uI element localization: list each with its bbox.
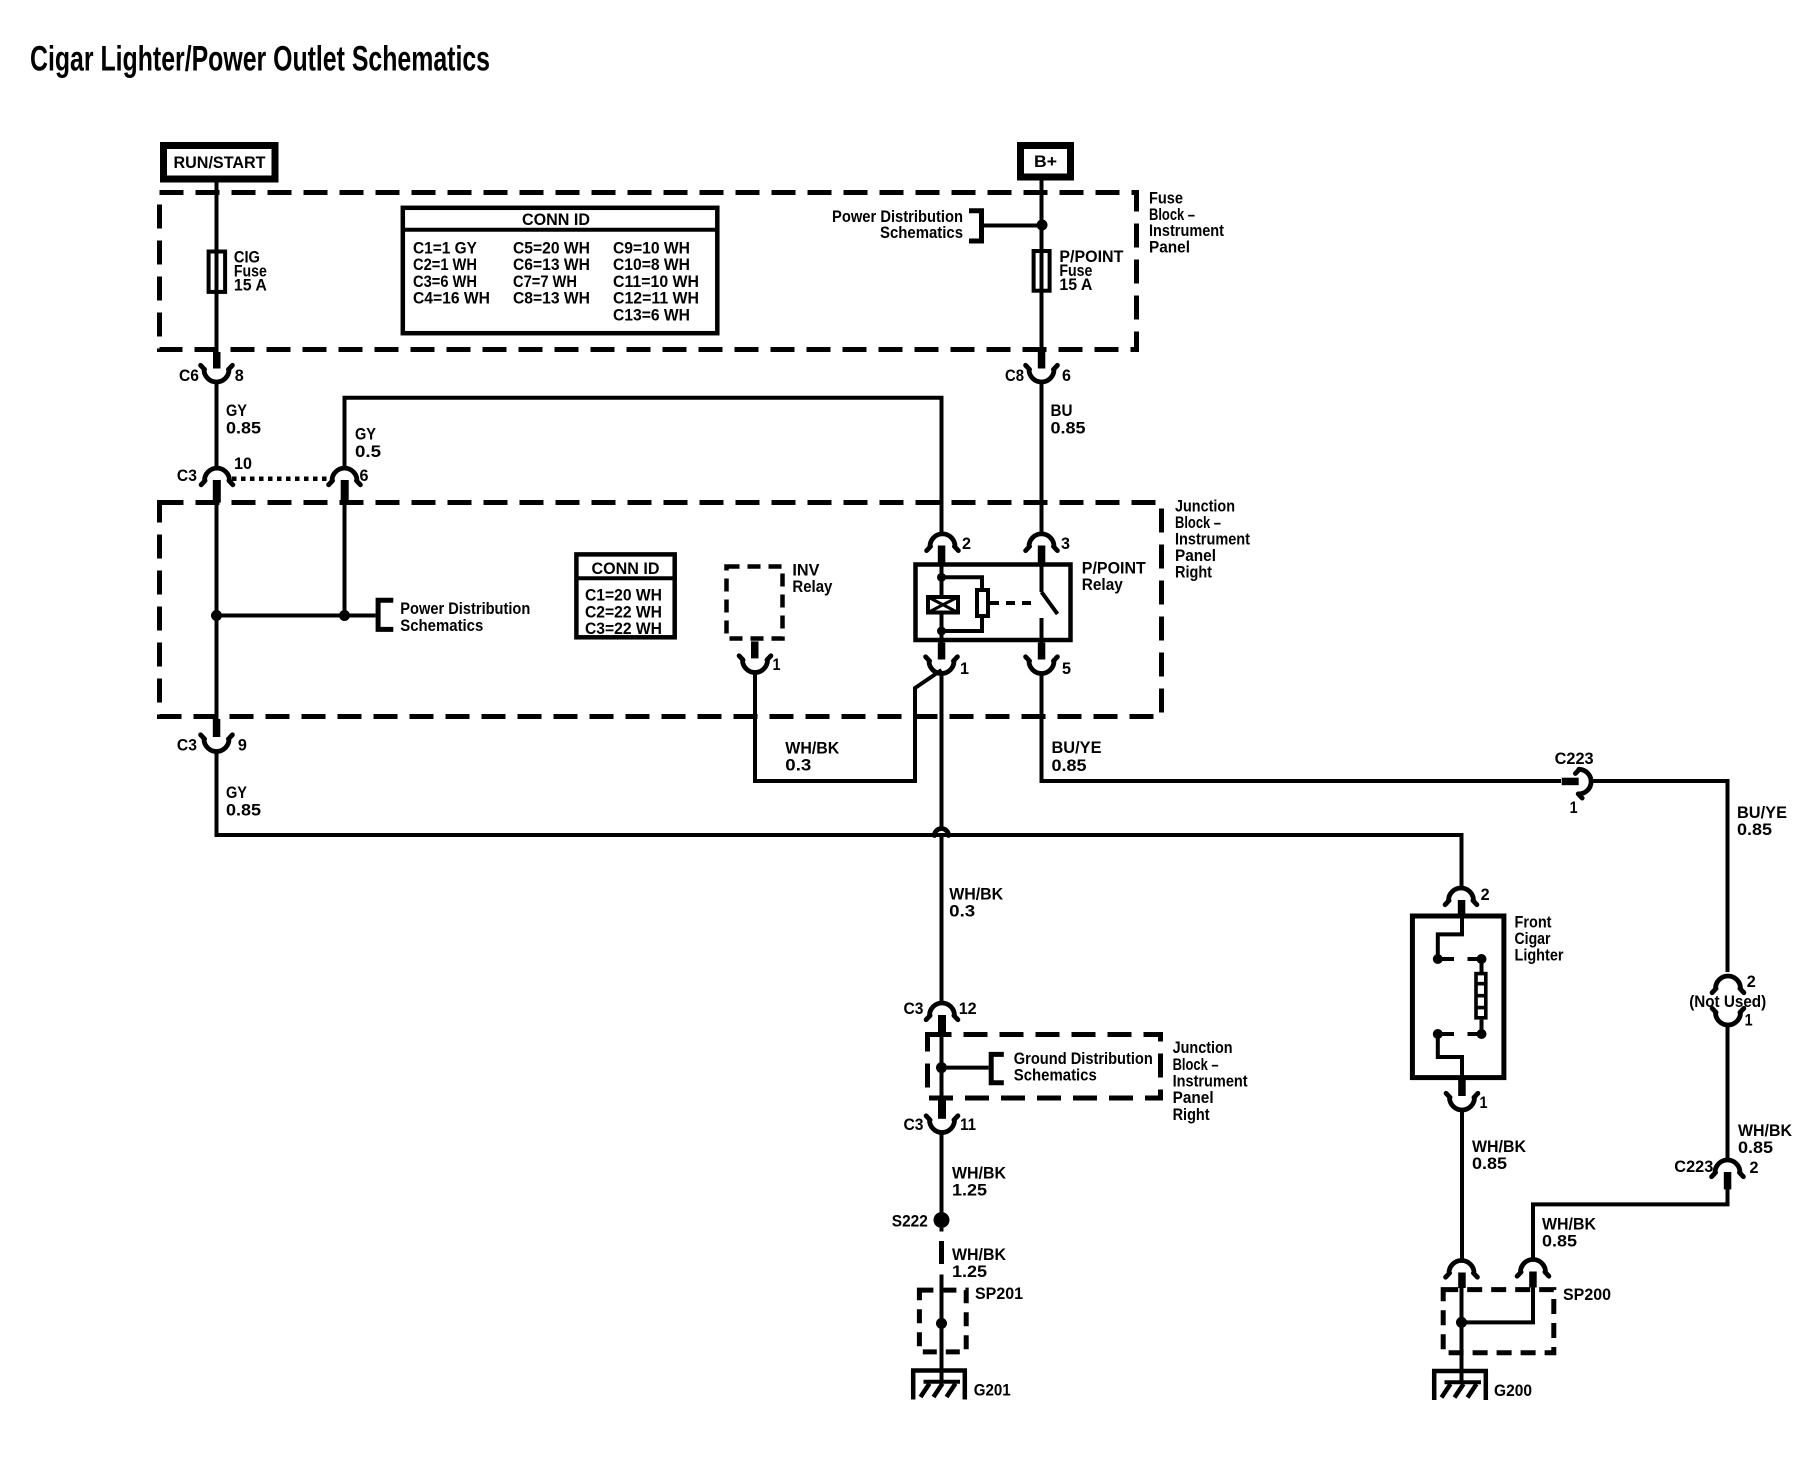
svg-text:0.85: 0.85 [1542, 1232, 1577, 1251]
junction block dashed box [160, 503, 1162, 717]
svg-text:Right: Right [1175, 563, 1212, 582]
wire C223/1 to right corner and down [1591, 781, 1728, 972]
svg-text:C3: C3 [177, 736, 197, 755]
svg-text:3: 3 [1061, 534, 1070, 553]
power distribution schematics reference (junction block) [378, 599, 530, 635]
ground distribution schematics reference [991, 1049, 1153, 1085]
svg-text:G200: G200 [1494, 1381, 1532, 1400]
cigar lighter internal: pin2 lead to top contact [1438, 914, 1462, 955]
svg-text:6: 6 [1062, 366, 1071, 385]
element lead top [1480, 959, 1484, 972]
node coil top [937, 573, 946, 582]
node junction bus left [211, 610, 222, 621]
wire label GY 0.85 (below C3/9) [226, 783, 261, 820]
junction block 2 label [1173, 1038, 1248, 1124]
svg-text:1: 1 [1745, 1011, 1753, 1030]
front cigar lighter box [1412, 916, 1504, 1078]
fuse P/POINT 15A [1034, 247, 1124, 294]
svg-text:Schematics: Schematics [400, 616, 483, 635]
wire through junction block 2 [940, 1030, 944, 1100]
fuse CIG 15A [209, 248, 267, 295]
power distribution schematics reference (fuse block) [832, 207, 982, 242]
relay core bar [977, 590, 988, 616]
svg-text:GY: GY [226, 783, 248, 802]
wire node to ground distribution bracket [942, 1066, 989, 1070]
node ground bus [936, 1062, 947, 1073]
svg-text:2: 2 [1747, 972, 1756, 991]
svg-text:0.5: 0.5 [355, 442, 381, 461]
svg-text:S222: S222 [892, 1212, 928, 1231]
svg-text:9: 9 [238, 736, 247, 755]
relay switch fixed contact (pin 3 side) [1040, 563, 1044, 593]
svg-text:15 A: 15 A [1059, 275, 1092, 294]
wire label WH/BK 0.85 (cigar) [1472, 1137, 1527, 1173]
relay coil wire pin2 to pin1 [940, 563, 944, 643]
svg-text:Panel: Panel [1149, 238, 1190, 257]
svg-text:CONN ID: CONN ID [522, 210, 590, 229]
svg-text:1: 1 [1480, 1093, 1488, 1112]
connector C223 pin 2 [1674, 1157, 1758, 1189]
svg-text:0.3: 0.3 [949, 902, 975, 921]
connector relay pin 5 [1026, 643, 1071, 679]
wire label BU/YE 0.85 (right) [1737, 803, 1787, 839]
svg-text:C4=16 WH: C4=16 WH [413, 289, 490, 308]
conn id table 1 [402, 208, 717, 333]
dotted connector tie line [232, 477, 332, 482]
svg-text:Right: Right [1173, 1105, 1210, 1124]
svg-text:C3: C3 [904, 999, 924, 1018]
wire RUN/START to C6 [215, 183, 219, 353]
svg-text:0.85: 0.85 [226, 419, 261, 438]
svg-text:5: 5 [1062, 659, 1071, 678]
power source box B+ [1021, 146, 1071, 178]
contact dot top-left [1433, 954, 1443, 964]
wire C3/10 down through junction block to C3/9 [215, 502, 219, 719]
node on B+ feed [1037, 220, 1048, 231]
P/POINT relay label [1082, 559, 1147, 595]
fuse block dashed box [160, 193, 1137, 350]
svg-text:BU: BU [1051, 401, 1073, 420]
junction block label [1175, 497, 1250, 582]
connector C8 pin 6 [1005, 352, 1071, 385]
svg-text:C8: C8 [1005, 366, 1024, 385]
svg-text:8: 8 [235, 366, 244, 385]
relay actuator dashed link [990, 601, 1038, 605]
heating element [1476, 974, 1486, 1018]
relay coil symbol (box with X) [928, 597, 958, 613]
svg-text:RUN/START: RUN/START [174, 153, 267, 172]
wire crossover hop [935, 829, 949, 836]
svg-text:C223: C223 [1674, 1157, 1713, 1176]
wire SP200 right to node [1462, 1288, 1534, 1323]
connector relay pin 2 [927, 534, 971, 563]
svg-text:0.85: 0.85 [1052, 756, 1087, 775]
wire C8 to relay pin 3 [1040, 381, 1044, 535]
contact dot bottom-left [1433, 1029, 1443, 1039]
wire relay pin5 down (BU/YE) [1042, 674, 1562, 782]
svg-text:1: 1 [960, 659, 969, 678]
svg-text:0.3: 0.3 [785, 756, 811, 775]
INV relay label [792, 561, 832, 597]
element lead bottom [1480, 1020, 1484, 1034]
svg-text:0.85: 0.85 [1737, 820, 1772, 839]
front cigar lighter label [1515, 913, 1564, 965]
svg-text:C8=13 WH: C8=13 WH [513, 289, 590, 308]
connector C6 pin 8 [179, 352, 244, 385]
connector (Not Used) pins 2/1 [1689, 972, 1766, 1030]
svg-text:6: 6 [360, 466, 369, 485]
svg-text:0.85: 0.85 [1738, 1138, 1773, 1157]
wire S222 stub [940, 1228, 944, 1232]
ground G201 [911, 1371, 1011, 1400]
wire label WH/BK 0.85 (middle) [1542, 1215, 1597, 1251]
relay INV dashed box [727, 567, 783, 639]
contact dot bottom-right [1477, 1029, 1487, 1039]
svg-text:BU/YE: BU/YE [1052, 738, 1102, 757]
svg-text:11: 11 [960, 1115, 976, 1134]
top-right contact stub [1468, 957, 1482, 961]
svg-text:B+: B+ [1034, 152, 1057, 171]
connector C3 pin 9 [177, 719, 247, 755]
relay switch lower contact (pin 5 side) [1040, 618, 1044, 643]
svg-text:12: 12 [959, 999, 977, 1018]
wire label BU 0.85 [1051, 401, 1086, 438]
wire C3/6 up and over to relay pin 2 [345, 398, 942, 535]
wire dashed segment to SP201 [939, 1241, 944, 1264]
wire into SP201 [940, 1275, 944, 1384]
wire not-used to C223/2 [1726, 1025, 1730, 1161]
fuse block label [1149, 189, 1224, 257]
svg-text:0.85: 0.85 [226, 801, 261, 820]
svg-text:Relay: Relay [792, 577, 832, 596]
connector C3 pin 12 [904, 999, 977, 1034]
wire relay pin1 branch to INV pin1 (WH/BK 0.3) [755, 670, 942, 781]
svg-text:GY: GY [355, 425, 377, 444]
svg-text:1.25: 1.25 [952, 1181, 987, 1200]
wire bracket to B+ node [984, 224, 1042, 228]
svg-text:SP201: SP201 [975, 1284, 1023, 1303]
svg-text:0.85: 0.85 [1051, 419, 1086, 438]
svg-text:Cigar Lighter/Power Outlet Sch: Cigar Lighter/Power Outlet Schematics [30, 40, 490, 79]
wire C3/11 to S222 [940, 1131, 944, 1213]
relay switch blade [1042, 592, 1058, 614]
relay coil loop [942, 577, 983, 631]
svg-text:0.85: 0.85 [1472, 1154, 1507, 1173]
node junction bus right [339, 610, 350, 621]
top-left contact stub [1438, 957, 1454, 961]
connector INV relay pin 1 [739, 641, 780, 674]
wire label WH/BK 0.3 (below hop) [949, 885, 1004, 921]
svg-text:C6: C6 [179, 366, 199, 385]
svg-text:SP200: SP200 [1563, 1285, 1611, 1304]
splice pack SP200 dashed box [1443, 1285, 1611, 1353]
connector front cigar lighter pin 1 [1446, 1080, 1487, 1112]
wire SP200 left through to ground [1460, 1288, 1464, 1383]
node SP200 [1456, 1317, 1467, 1328]
node SP201 [936, 1318, 947, 1329]
bottom-right contact stub [1468, 1032, 1482, 1036]
wire cigar pin 1 down to SP200 left pin [1460, 1110, 1464, 1261]
connector relay pin 3 [1026, 534, 1070, 563]
svg-text:15 A: 15 A [234, 276, 267, 295]
svg-text:1.25: 1.25 [952, 1262, 987, 1281]
svg-text:C13=6 WH: C13=6 WH [613, 305, 690, 324]
contact dot top-right [1477, 954, 1487, 964]
connector C223 pin 1 (in-line) [1555, 749, 1594, 817]
wire junction bus to bracket [217, 614, 376, 618]
wire C3/6 pin down to bus [343, 502, 347, 616]
svg-text:Lighter: Lighter [1515, 946, 1564, 965]
svg-text:G201: G201 [974, 1381, 1011, 1400]
wire label WH/BK 0.85 (right top) [1738, 1121, 1793, 1157]
power source box RUN/START [164, 146, 276, 180]
wire C3/9 GY bus to cigar lighter [217, 752, 1462, 887]
svg-text:Schematics: Schematics [1014, 1066, 1097, 1085]
connector SP200 left pin [1446, 1261, 1478, 1289]
connector relay pin 1 [926, 643, 969, 679]
connector SP200 right pin [1517, 1259, 1549, 1287]
svg-text:1: 1 [1570, 798, 1578, 817]
svg-text:C3: C3 [177, 466, 197, 485]
relay P/POINT box [916, 565, 1071, 641]
ground G200 [1432, 1371, 1532, 1400]
svg-text:CONN ID: CONN ID [592, 559, 660, 578]
svg-text:2: 2 [1481, 885, 1490, 904]
wire relay pin1 down to hop [940, 674, 944, 830]
bottom lead to pin 1 [1438, 1034, 1462, 1080]
wire label WH/BK 1.25 (lower) [952, 1245, 1007, 1281]
wire C223/2 jog left down to SP200 right pin [1533, 1189, 1728, 1260]
svg-text:Relay: Relay [1082, 575, 1123, 594]
svg-text:Schematics: Schematics [880, 223, 963, 242]
conn id table 2 [576, 554, 675, 638]
wire label BU/YE 0.85 [1052, 738, 1102, 775]
svg-text:C3: C3 [904, 1115, 924, 1134]
wire label GY 0.85 (left) [226, 401, 261, 438]
svg-text:2: 2 [1750, 1158, 1759, 1177]
splice S222 [892, 1212, 950, 1231]
svg-text:C223: C223 [1555, 749, 1594, 768]
wire label WH/BK 0.3 (inside loop) [785, 739, 840, 775]
wire C6 to C3 pin 10 [215, 381, 219, 469]
connector C3 pin 11 [904, 1100, 977, 1134]
wire hop down to C3/12 [940, 836, 944, 1005]
svg-text:10: 10 [234, 454, 252, 473]
svg-text:2: 2 [962, 534, 971, 553]
splice pack SP201 dashed box [919, 1284, 1023, 1352]
node coil bottom [937, 627, 946, 636]
svg-text:GY: GY [226, 401, 248, 420]
wire label WH/BK 1.25 [952, 1164, 1007, 1200]
bottom-left contact stub [1438, 1032, 1454, 1036]
wire label GY 0.5 [355, 425, 381, 462]
svg-text:1: 1 [773, 655, 781, 674]
connector C3 pin 10 [177, 454, 252, 503]
svg-text:(Not Used): (Not Used) [1689, 992, 1766, 1011]
junction block 2 dashed box [928, 1035, 1161, 1099]
connector C3 pin 6 [329, 466, 369, 503]
connector front cigar lighter pin 2 [1445, 885, 1490, 914]
svg-text:C3=22 WH: C3=22 WH [585, 619, 662, 638]
wire B+ to C8 [1040, 181, 1044, 353]
